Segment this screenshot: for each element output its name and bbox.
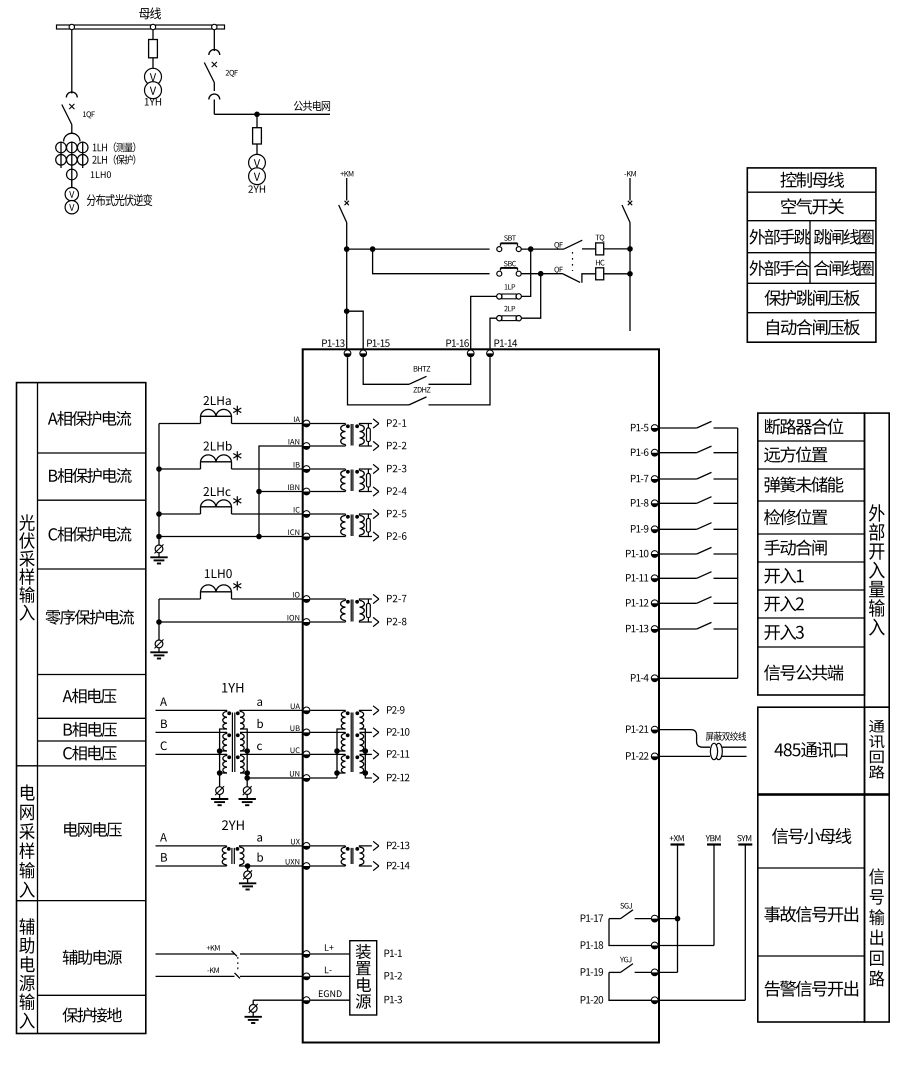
- wire +KM to SBT: [347, 248, 490, 250]
- internal VT UX/UXN: [310, 845, 345, 847]
- P1-19 outside wire to +XM: [659, 971, 678, 973]
- CT common line to ground: [158, 424, 160, 546]
- wire UC: [240, 753, 303, 755]
- shield cylinder: [715, 743, 722, 759]
- row label B相电压: [64, 722, 117, 737]
- breaker 2QF upper arc: [209, 50, 220, 56]
- pushbutton SBC: [497, 271, 502, 276]
- close coil HC: [596, 268, 604, 280]
- terminal UB: [303, 729, 310, 736]
- input P1-6 terminal wire and switch: [631, 448, 649, 456]
- QF close aux contact: [554, 267, 562, 274]
- row label 事故信号开出: [764, 906, 858, 922]
- wire I0 to terminal: [232, 598, 303, 600]
- wire IBN: [259, 491, 303, 493]
- input P1-7 terminal wire and switch: [631, 475, 649, 482]
- -KM supply label: [624, 171, 636, 176]
- left legend table frame: [17, 383, 146, 1034]
- EGND wire to protective earth: [253, 999, 303, 1001]
- terminal IAN: [303, 443, 310, 450]
- 1YH core: [231, 713, 233, 773]
- -KM wire with x and blade: [629, 178, 631, 201]
- trip coil TQ: [596, 243, 604, 255]
- wire to CT group: [71, 125, 73, 134]
- P1-19 P1-20 link: [609, 972, 659, 1000]
- CT 2LHb label: [203, 441, 231, 451]
- busbar: [57, 25, 225, 29]
- vertical label 信号输出回路: [869, 868, 884, 986]
- P1-18 outside wire to YBM: [659, 945, 714, 947]
- inverter symbol circles with V: [71, 180, 73, 188]
- terminal P1-21: [626, 725, 648, 732]
- terminal P1-20: [581, 996, 603, 1004]
- cell 空气开关: [781, 198, 844, 214]
- input P1-9 terminal wire and switch: [631, 525, 649, 533]
- breaker 2QF x-mark: [212, 62, 217, 67]
- terminal UC: [303, 751, 310, 758]
- row label 手动合闸: [764, 540, 826, 556]
- 1LH0 common to ground: [158, 599, 160, 640]
- label 公共电网: [294, 101, 330, 112]
- cell 保护跳闸压板: [765, 290, 860, 306]
- device enclosure box: [303, 349, 659, 1042]
- wire IA to terminal: [232, 423, 303, 425]
- internal VT secondary bus: [360, 729, 372, 778]
- ground protective earth: [249, 1005, 257, 1013]
- row label 远方位置: [764, 446, 827, 462]
- signal bus YBM: [706, 835, 721, 841]
- pressure plate 1LP: [497, 294, 502, 299]
- terminal IBN: [303, 488, 310, 495]
- terminal P1-14: [487, 350, 494, 357]
- left table row lines: [38, 452, 146, 454]
- internal VT core: [350, 713, 352, 773]
- terminal P1-22: [626, 752, 648, 759]
- terminal UX: [303, 843, 310, 850]
- 2YH primary winding: [222, 847, 226, 865]
- cell 外部手合: [749, 260, 810, 276]
- breaker 2QF blade: [204, 63, 214, 83]
- CT 1LH0 hump on I0 wire: [159, 598, 201, 600]
- 2YH core: [231, 848, 233, 864]
- cable break marks: [232, 951, 238, 957]
- breaker 1QF blade: [62, 105, 72, 125]
- contact YGJ: [620, 957, 631, 963]
- CT 2LHc label: [203, 487, 230, 496]
- aux +KM wire: [156, 953, 235, 955]
- row label 弹簧未储能: [765, 476, 844, 492]
- CT group three phase lines: [60, 142, 62, 169]
- terminal I0: [303, 596, 310, 603]
- label 2YH transformer: [222, 820, 244, 830]
- input common P1-4: [631, 674, 649, 681]
- P1-17 P1-18 link: [609, 919, 659, 946]
- wire HC to -KM: [604, 273, 630, 275]
- vertical group label 电网采样输入: [19, 784, 35, 897]
- label 2LH (protection): [92, 155, 135, 165]
- input P1-8 terminal wire and switch: [631, 499, 649, 507]
- internal BHTZ contact: [363, 357, 409, 384]
- P1-17 outside wire to +XM: [659, 918, 678, 920]
- internal CT IC/ICN: [310, 513, 345, 515]
- row label 开入1: [764, 568, 803, 584]
- input P1-10 terminal wire and switch: [626, 550, 648, 558]
- CT 2LHc hump on IC wire: [159, 513, 201, 515]
- internal VT for UA..UN: [310, 709, 345, 711]
- breaker 1QF x-mark: [69, 104, 74, 109]
- busbar 母线 label: [139, 7, 161, 19]
- terminal ICN: [303, 533, 310, 540]
- internal CT IB/IBN: [310, 468, 345, 470]
- CT 2LH protection circles row: [56, 155, 67, 166]
- 1YH secondary windings: [240, 712, 244, 730]
- fuse 2YH: [253, 128, 262, 144]
- 1YH primary star bus to ground: [220, 729, 227, 787]
- wire IC to terminal: [232, 513, 303, 515]
- junction +KM to SBT wire: [344, 246, 350, 252]
- wire UN: [247, 777, 303, 779]
- wires to L+ L- terminals: [240, 953, 303, 955]
- 2YH secondary winding: [240, 847, 244, 865]
- vertical group label 辅助电源输入: [19, 918, 35, 1028]
- wire to public grid 公共电网: [214, 113, 330, 115]
- terminal UXN: [303, 863, 310, 870]
- vertical group label 光伏采样输入: [19, 514, 35, 620]
- label 1LH0: [91, 171, 111, 178]
- junction after SBT (to 1LP): [528, 246, 534, 252]
- +KM vertical wire: [346, 223, 348, 350]
- signal output table: [758, 795, 865, 1022]
- row label 断路器合位: [765, 418, 843, 434]
- cell 控制母线: [780, 172, 844, 188]
- wire TQ to -KM: [604, 248, 630, 250]
- row label A相保护电流: [48, 411, 131, 426]
- label 1QF: [83, 111, 95, 118]
- internal VT primary neutral bus: [337, 729, 346, 778]
- CT 2LHb hump on IB wire: [159, 468, 201, 470]
- 2YH secondary wires a b: [257, 835, 262, 842]
- secondary labels a b c: [257, 699, 262, 706]
- lower arc (3-phase): [64, 133, 80, 141]
- 2YH phase B wire: [156, 865, 227, 867]
- signal bus SYM: [737, 835, 751, 841]
- CT 1LH0 zero-seq circle: [67, 169, 78, 180]
- label 1YH transformer: [222, 683, 243, 693]
- terminal P1-17: [581, 914, 603, 921]
- cell 外部手跳: [749, 229, 810, 245]
- label 屏蔽双绞线: [706, 732, 746, 741]
- ground 1YH secondary: [243, 787, 251, 795]
- wire 2LP right to SBC junction: [521, 274, 541, 319]
- wire IAN: [259, 446, 303, 537]
- internal CT I0/I0N: [310, 598, 345, 600]
- wire SBT to QF: [521, 248, 564, 250]
- vertical label 通讯回路: [869, 720, 884, 779]
- row label 告警信号开出: [765, 981, 859, 997]
- terminal I0N: [303, 619, 310, 626]
- internal VT secondary windings: [360, 712, 364, 730]
- breaker 2QF lower arc: [209, 94, 220, 99]
- terminal P1-19: [581, 968, 603, 976]
- row label 保护接地: [62, 1008, 121, 1023]
- pushbutton SBT: [497, 247, 502, 252]
- row label 电网电压: [64, 822, 122, 837]
- labels P1-1 P1-2 P1-3: [385, 950, 402, 957]
- input common bus: [737, 428, 739, 678]
- internal CT IA/IAN: [310, 423, 345, 425]
- pressure plate 2LP: [497, 316, 502, 321]
- QF trip aux contact: [554, 242, 562, 249]
- internal ZDHZ contact: [348, 357, 410, 405]
- ground CT common: [155, 545, 163, 553]
- wire ICN: [159, 536, 303, 538]
- twisted pair wires: [659, 730, 710, 748]
- digital input legend table: [758, 413, 865, 695]
- terminal IB: [303, 466, 310, 473]
- wire 1LP left down to P1-16: [471, 296, 497, 349]
- input P1-12 terminal wire and switch: [626, 599, 648, 606]
- terminal IC: [303, 511, 310, 518]
- fuse 1YH: [149, 40, 158, 58]
- 2YH phase A wire: [156, 845, 227, 847]
- terminal P1-18: [581, 941, 603, 949]
- input P1-11 terminal wire and switch: [626, 574, 648, 581]
- P1-20 outside wire to SYM: [659, 999, 746, 1001]
- 1YH secondary neutral bus: [240, 729, 247, 787]
- terminal EGND: [303, 997, 310, 1004]
- row label 零序保护电流: [45, 610, 134, 625]
- row label 开入3: [764, 624, 803, 640]
- label 1LH (measuring): [93, 142, 135, 152]
- node junction to 2YH: [254, 112, 260, 118]
- CT 1LH measuring circles row: [56, 142, 67, 153]
- terminal L-: [303, 973, 310, 980]
- SBC branch wire: [373, 249, 490, 274]
- feeder 1QF: wire from busbar: [71, 30, 73, 94]
- wires to P2-9..P2-12 arrows: [360, 710, 372, 711]
- CT 2LHa label: [203, 396, 230, 405]
- row label 信号小母线: [772, 828, 851, 844]
- terminal P1-15: [360, 350, 367, 357]
- junction after SBC (to 2LP): [538, 271, 544, 277]
- terminal P1-13: [344, 350, 351, 357]
- wire 1LP right to SBT junction: [521, 249, 531, 296]
- feeder 2QF wire: [213, 30, 215, 51]
- row label B相保护电流: [49, 468, 132, 483]
- control legend table: [747, 168, 876, 342]
- ground 1YH primary: [216, 787, 224, 795]
- phase A wire: [156, 709, 228, 711]
- voltage transformer 2YH circles: [249, 154, 266, 171]
- aux -KM wire: [156, 975, 235, 977]
- wire 2LP left down to P1-14: [490, 318, 497, 349]
- jog +KM to P1-15: [344, 308, 350, 314]
- wire UB: [240, 731, 303, 733]
- wire UA: [240, 710, 303, 711]
- CT 2LHa hump on IA wire: [159, 423, 201, 425]
- terminal IA: [303, 420, 310, 427]
- row label C相保护电流: [49, 527, 132, 542]
- phase C wire: [156, 753, 228, 755]
- junction to SBC branch: [370, 246, 376, 252]
- row label 开入2: [764, 596, 803, 612]
- row label 辅助电源: [63, 950, 122, 965]
- +KM fuse x and blade: [346, 178, 348, 201]
- 2YH secondary ground tap: [245, 863, 251, 869]
- label 分布式光伏逆变: [87, 194, 153, 206]
- wire I0N: [159, 621, 303, 623]
- row label C相电压: [63, 746, 116, 761]
- phase B wire: [156, 731, 228, 733]
- left table group separators on narrow col: [17, 765, 38, 767]
- terminal UN: [303, 775, 310, 782]
- wire SBC to QF close contact: [521, 273, 563, 275]
- cell 自动合闸压板: [767, 319, 860, 335]
- cell 跳闸线圈: [814, 229, 874, 245]
- device power module box 装置电源: [350, 941, 377, 1015]
- terminal UA: [303, 707, 310, 714]
- cell 合闸线圈: [814, 260, 874, 276]
- internal wires to power module: [310, 953, 350, 955]
- comms table 485通讯口: [758, 707, 865, 794]
- 1YH primary windings: [226, 710, 228, 711]
- input P1-13 terminal wire and switch: [626, 625, 648, 633]
- row label A相电压: [63, 688, 117, 703]
- feeder 1YH: wire: [152, 30, 154, 40]
- mechanical linkage dashed: [572, 252, 574, 271]
- CT 1LH0 label: [205, 569, 232, 578]
- voltage transformer 1YH circles: [145, 68, 162, 85]
- terminal P1-16: [467, 350, 474, 357]
- row label 信号公共端: [764, 665, 843, 681]
- terminal L+: [303, 951, 310, 958]
- signal bus +XM: [670, 835, 684, 841]
- label 2QF: [226, 70, 238, 77]
- input P1-5 terminal wire and switch: [631, 424, 649, 431]
- ground 1LH0: [155, 640, 163, 648]
- label 2YH: [248, 185, 265, 192]
- label 1YH: [145, 98, 161, 105]
- busbar tap nodes: [69, 24, 74, 29]
- row label 检修位置: [764, 509, 827, 525]
- contact SGJ: [620, 903, 631, 909]
- breaker 1QF upper contact arc: [66, 92, 77, 97]
- vertical label 外部开入量输入: [869, 504, 885, 635]
- wire IB to terminal: [232, 468, 303, 470]
- +KM supply label: [340, 171, 353, 176]
